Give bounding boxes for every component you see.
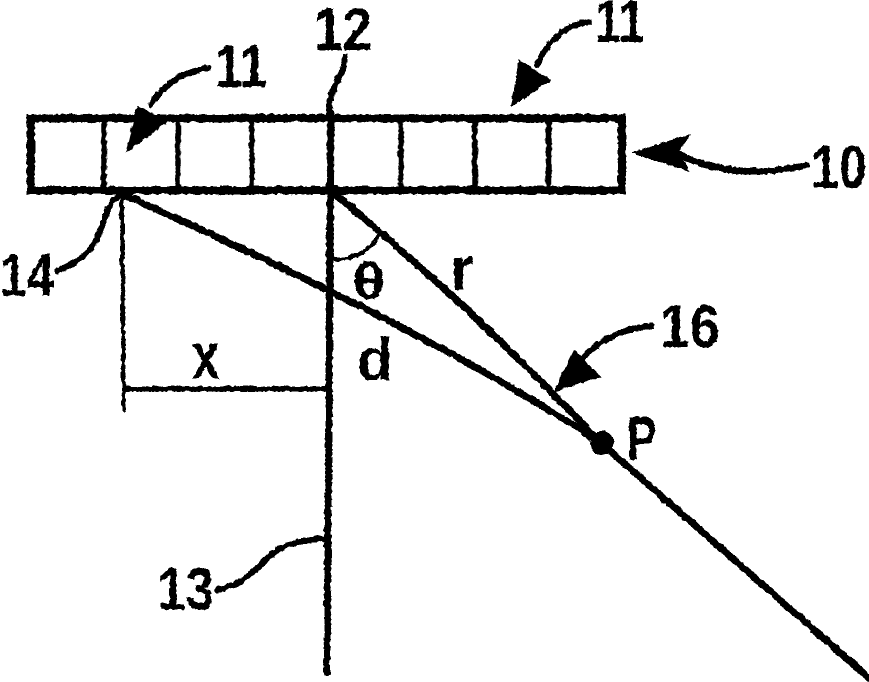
- svg-text:θ: θ: [352, 252, 385, 309]
- element divider 1: [100, 117, 106, 190]
- leader from label 12 to axis: [328, 56, 344, 112]
- element divider 2: [174, 117, 180, 190]
- point P dot: [589, 430, 613, 454]
- element divider 6: [471, 117, 477, 190]
- arrowhead for left label 11: [125, 105, 168, 152]
- leader arrow stem for right label 11: [536, 21, 588, 64]
- x dimension horizontal line: [124, 386, 328, 391]
- svg-text:d: d: [356, 326, 392, 392]
- leader from label 13 to axis: [216, 538, 322, 589]
- element divider 7: [545, 117, 551, 190]
- svg-text:16: 16: [659, 292, 719, 359]
- line A from array corner 14 to point P: [121, 193, 600, 442]
- element divider 4 (axis crossing): [326, 117, 332, 190]
- svg-text:x: x: [191, 318, 219, 392]
- leader arrow stem for label 10: [678, 153, 806, 170]
- leader from label 14 to array corner: [56, 193, 120, 270]
- theta angle arc: [331, 231, 380, 258]
- svg-text:r: r: [449, 234, 473, 302]
- svg-text:11: 11: [214, 32, 266, 99]
- thin vertical line from array corner down (x dimension left side): [121, 193, 123, 410]
- element divider 3: [248, 117, 254, 190]
- arrowhead for right label 11: [510, 58, 550, 106]
- leader arrow stem for left label 11: [150, 67, 208, 104]
- line B (ray r) from axis origin through point P to lower right: [330, 190, 869, 678]
- transducer array 10 outer rectangle: [30, 118, 621, 190]
- element divider 5: [397, 117, 403, 190]
- svg-text:14: 14: [0, 241, 54, 308]
- leader arrow stem for label 16: [583, 325, 651, 356]
- svg-text:10: 10: [810, 133, 866, 200]
- axis line 13 (vertical center line): [326, 113, 330, 672]
- arrowhead for label 16: [553, 348, 600, 391]
- arrowhead for label 10: [630, 133, 690, 171]
- svg-text:12: 12: [313, 0, 371, 62]
- svg-text:11: 11: [594, 0, 644, 54]
- svg-text:13: 13: [157, 555, 213, 622]
- svg-text:P: P: [626, 404, 656, 473]
